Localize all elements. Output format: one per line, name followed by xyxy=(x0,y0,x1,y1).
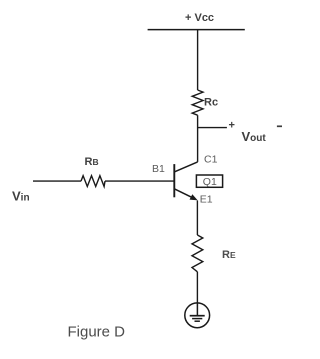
transistor Q1 emitter lead xyxy=(174,189,192,198)
svg-text:Vout: Vout xyxy=(242,129,267,144)
svg-text:RE: RE xyxy=(222,249,236,261)
wire RB to base xyxy=(105,180,174,182)
transistor Q1 emitter arrowhead xyxy=(190,195,197,200)
svg-text:+ Vcc: + Vcc xyxy=(185,12,214,24)
resistor Rc xyxy=(192,90,203,115)
svg-text:Figure D: Figure D xyxy=(68,324,126,341)
wire Vout tap xyxy=(198,127,227,129)
resistor RE xyxy=(192,235,203,272)
wire RE to ground xyxy=(196,272,198,303)
box Q1 xyxy=(196,175,222,187)
transistor Q1 collector lead xyxy=(174,162,197,172)
wire Rc to collector xyxy=(197,115,199,162)
svg-text:C1: C1 xyxy=(204,154,218,166)
svg-text:E1: E1 xyxy=(200,193,213,205)
wire Vcc to Rc xyxy=(197,30,199,90)
Vcc rail xyxy=(148,29,245,31)
svg-text:RB: RB xyxy=(85,156,99,168)
svg-text:+: + xyxy=(229,120,235,132)
wire Vin to RB xyxy=(33,180,81,182)
svg-text:B1: B1 xyxy=(152,163,165,175)
label - (Vout minus) xyxy=(277,125,282,127)
wire emitter to RE xyxy=(196,201,198,236)
svg-text:Q1: Q1 xyxy=(203,176,217,188)
svg-text:Vin: Vin xyxy=(12,189,30,204)
ground (circled earth) xyxy=(185,303,210,328)
resistor RB xyxy=(81,176,105,187)
svg-text:Rc: Rc xyxy=(204,96,218,108)
transistor Q1 base bar xyxy=(173,164,175,197)
